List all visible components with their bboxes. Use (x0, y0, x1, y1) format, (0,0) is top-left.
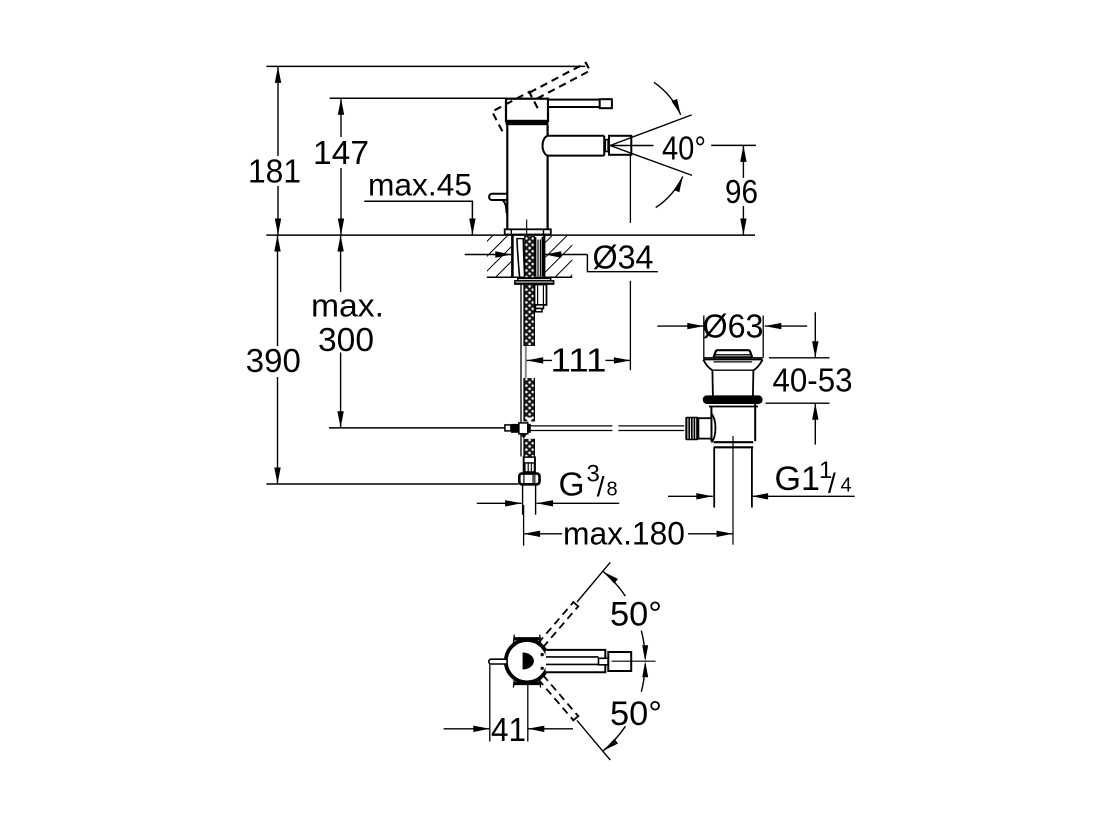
braided hose middle section (524, 378, 534, 422)
braided hose lower section (524, 439, 534, 457)
lower 50deg leg line (577, 720, 610, 760)
svg-text:8: 8 (607, 479, 618, 501)
faucet body outline (506, 125, 508, 229)
svg-text:max.45: max.45 (368, 166, 472, 202)
svg-text:max.: max. (311, 287, 384, 323)
svg-text:390: 390 (246, 342, 301, 379)
aerator extension line down (629, 155, 631, 223)
rod linkage housing below counter (535, 285, 547, 305)
dimension 147 vertical line (340, 98, 342, 137)
aerator top view (608, 652, 631, 671)
drain rubber seal (703, 395, 763, 404)
svg-text:G1: G1 (775, 460, 820, 498)
braided hose upper section (524, 284, 534, 346)
drain body rim under seal (709, 406, 758, 408)
96 top extension line (711, 144, 756, 146)
upper 40deg arc arrow (654, 82, 681, 115)
lower dashed lever (50deg) (538, 679, 573, 720)
drain tailpipe (713, 447, 715, 507)
max180 left extension line (523, 505, 525, 546)
lever bar top view (546, 657, 599, 665)
pop-up rod (top view) (489, 659, 507, 664)
drain plug cap (714, 350, 753, 357)
svg-text:40°: 40° (662, 130, 706, 167)
dimension 181 top extension line (266, 65, 585, 67)
horizontal pop-up rod to drain (531, 425, 613, 427)
dashed handle (tilted position) (492, 62, 596, 131)
faucet handle housing (506, 99, 548, 121)
ball joint arc (711, 414, 715, 443)
top/bottom flat chords (514, 637, 541, 640)
dimension 147 extension line (330, 97, 507, 99)
knob stem (698, 418, 711, 438)
aerator (609, 136, 631, 155)
dimension 41 extension lines (489, 665, 491, 742)
centerline right (612, 660, 656, 662)
upper 50deg arc with arrows (603, 572, 625, 596)
hose thin left line (520, 284, 522, 456)
lower 40deg arc arrow (656, 176, 683, 207)
dimension 41 (444, 728, 473, 730)
dimension 96 vertical line (742, 145, 744, 178)
handle housing black band (506, 121, 549, 126)
body centerline (526, 220, 528, 248)
drain body bottom joint (714, 441, 754, 443)
drain centerline (732, 436, 734, 545)
svg-text:96: 96 (725, 173, 758, 210)
svg-text:/: / (828, 468, 836, 499)
dimension 111 (527, 359, 552, 361)
svg-text:Ø63: Ø63 (703, 308, 764, 345)
hose gray line in braid gap (525, 346, 527, 378)
spout top view (546, 650, 606, 672)
upper dashed lever (50deg) (538, 602, 573, 643)
svg-text:147: 147 (313, 134, 369, 171)
dimension 390 vertical line (277, 235, 279, 346)
hose end tube (522, 484, 524, 515)
dimension max.300 vertical line (340, 235, 342, 292)
dimension 181 vertical line (277, 66, 279, 156)
hose end nut G3/8 (519, 474, 539, 485)
svg-text:41: 41 (491, 711, 526, 748)
Ø63 extension lines (703, 316, 705, 358)
dimension Ø34 arrows (465, 254, 512, 256)
dimension G1 1/4 arrows (668, 495, 713, 497)
max.300 extension line to pop-up rod (329, 427, 505, 429)
drain body (710, 407, 712, 442)
drain bell (703, 360, 712, 371)
upper 50deg leg line (577, 562, 610, 602)
counter top line (266, 234, 755, 236)
pop-up rod fitting at hose (525, 418, 535, 423)
flexible hose curve inside hole (516, 238, 524, 240)
dimension 40-53 arrows (814, 312, 816, 341)
handle lever (548, 100, 600, 107)
spray lines from aerator (40 deg) (610, 115, 692, 146)
drain head rim (703, 357, 762, 359)
svg-text:40-53: 40-53 (773, 362, 853, 399)
pop-up rod knob on body (489, 194, 507, 200)
base flange (505, 229, 551, 234)
390 bottom extension line (266, 483, 518, 485)
screw dots (541, 653, 544, 656)
hose end connector ribs (523, 456, 536, 473)
dimension Ø63 arrows (657, 325, 704, 327)
svg-text:4: 4 (841, 475, 852, 497)
top view faucet body circle (506, 640, 548, 682)
aerator joint (605, 140, 608, 152)
svg-text:111: 111 (551, 342, 607, 379)
pop-up rod housing in hole (535, 237, 537, 276)
svg-text:max.180: max.180 (563, 516, 685, 552)
spout (548, 135, 605, 137)
svg-text:Ø34: Ø34 (593, 239, 654, 276)
hole left edge (511, 235, 514, 277)
hole right edge (543, 235, 546, 277)
svg-text:300: 300 (318, 321, 374, 358)
svg-text:181: 181 (248, 152, 301, 189)
chord end ticks (512, 635, 515, 643)
svg-text:50°: 50° (610, 695, 662, 733)
D-shaped cartridge mark (523, 653, 534, 670)
svg-text:G: G (559, 467, 585, 504)
svg-text:/: / (597, 471, 605, 502)
svg-text:50°: 50° (610, 595, 662, 633)
dimension G3/8 arrows (477, 502, 504, 504)
mounting nut below counter (518, 278, 551, 280)
spout rounded end bump (543, 136, 548, 156)
40-53 extension lines (769, 357, 830, 359)
lower 50deg arc with arrows (603, 726, 625, 750)
drain knurled knob (685, 417, 698, 440)
counter bottom line (487, 276, 572, 278)
threaded shank braid in hole (525, 236, 535, 277)
drain neck (711, 370, 714, 395)
dimension max.180 (524, 533, 562, 535)
counter hatched slab right of hole (546, 236, 573, 277)
counter hatched slab left of hole (487, 236, 512, 277)
